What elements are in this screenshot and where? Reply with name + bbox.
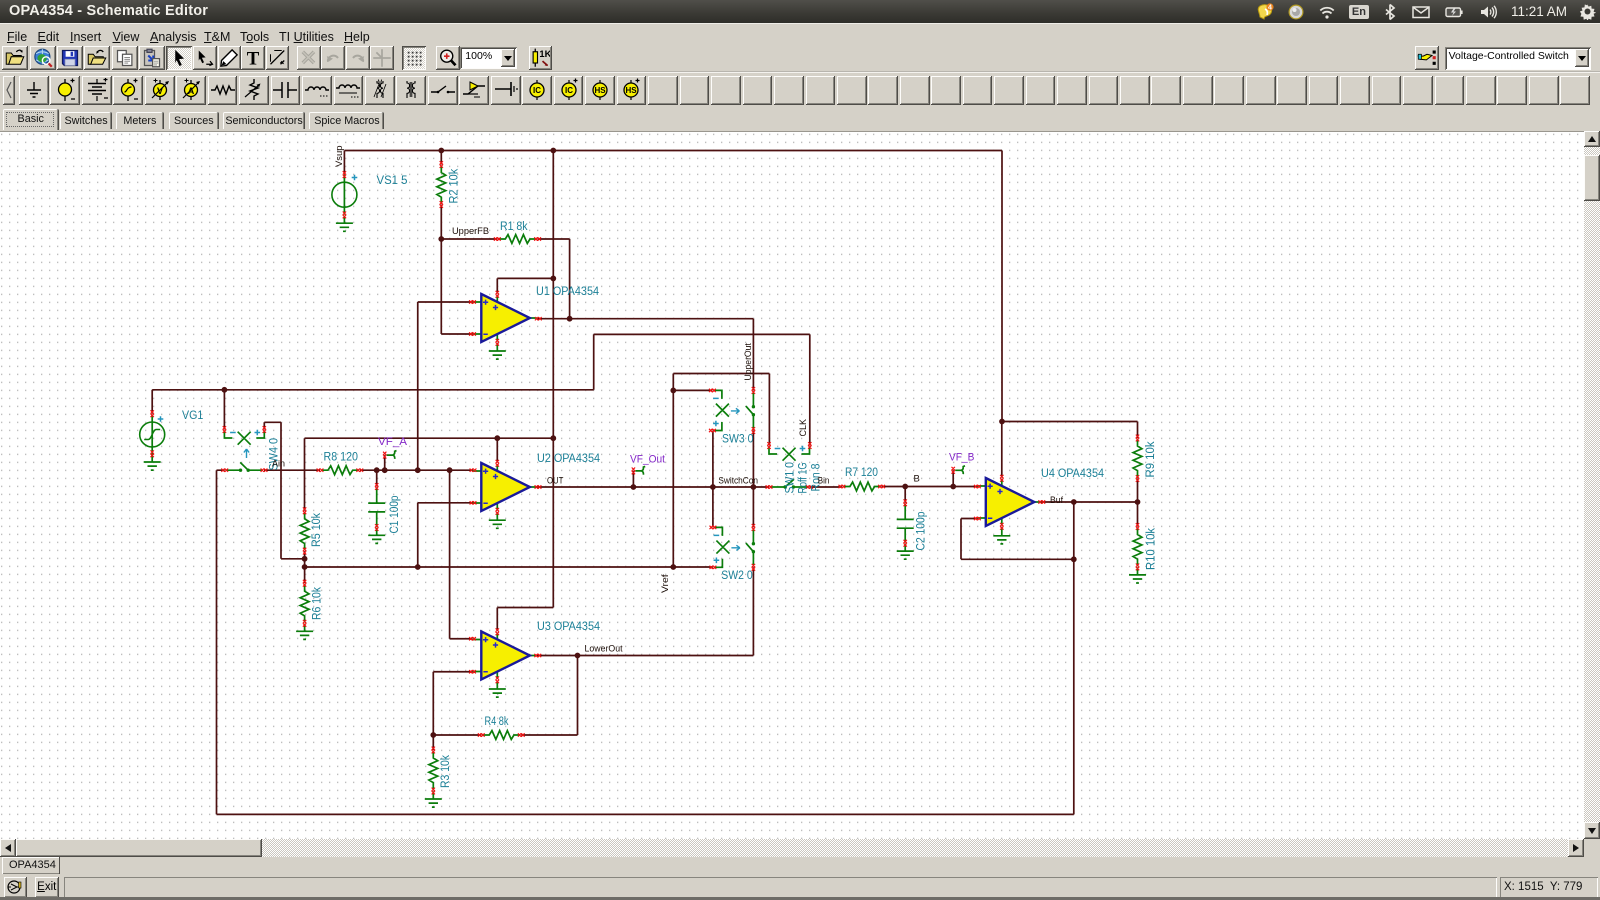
svg-text:R1 8k: R1 8k <box>500 221 528 233</box>
svg-text:R6 10k: R6 10k <box>312 587 324 620</box>
svg-text:Buf: Buf <box>1050 495 1063 506</box>
svg-text:VF_Out: VF_Out <box>630 454 665 466</box>
svg-text:U1 OPA4354: U1 OPA4354 <box>536 286 600 298</box>
svg-text:HS: HS <box>626 86 638 95</box>
svg-text:OUT: OUT <box>547 475 564 486</box>
svg-text:Bin: Bin <box>818 476 830 487</box>
svg-text:R5 10k: R5 10k <box>311 513 323 547</box>
svg-text:U4 OPA4354: U4 OPA4354 <box>1041 468 1105 480</box>
svg-text:R10 10k: R10 10k <box>1146 528 1158 570</box>
svg-text:VG1: VG1 <box>182 410 203 422</box>
svg-text:HS: HS <box>594 86 606 95</box>
svg-text:C1 100p: C1 100p <box>389 496 401 534</box>
svg-text:VF_A: VF_A <box>378 436 408 448</box>
svg-text:R9 10k: R9 10k <box>1145 441 1157 477</box>
svg-text:SW3 0: SW3 0 <box>722 434 753 446</box>
svg-text:U2 OPA4354: U2 OPA4354 <box>537 453 601 465</box>
svg-text:B: B <box>914 474 920 485</box>
svg-text:Roff 1G: Roff 1G <box>798 462 810 493</box>
svg-text:R4 8k: R4 8k <box>485 716 509 728</box>
svg-text:1K: 1K <box>540 49 551 59</box>
svg-text:R7 120: R7 120 <box>845 467 878 479</box>
svg-text:C2 100p: C2 100p <box>916 512 928 551</box>
svg-text:T: T <box>247 48 260 68</box>
svg-text:CLK: CLK <box>798 418 809 436</box>
svg-text:IC: IC <box>533 86 541 95</box>
svg-text:UpperFB: UpperFB <box>452 226 489 237</box>
svg-text:Vsup: Vsup <box>334 146 345 168</box>
svg-text:R2 10k: R2 10k <box>449 169 461 204</box>
svg-text:SW1 0: SW1 0 <box>785 462 797 494</box>
svg-text:R8 120: R8 120 <box>324 452 359 464</box>
svg-text:Vref: Vref <box>660 574 671 593</box>
svg-text:SwitchCon: SwitchCon <box>718 476 758 487</box>
svg-text:VS1 5: VS1 5 <box>377 175 408 187</box>
svg-text:LowerOut: LowerOut <box>585 644 623 655</box>
svg-text:U3 OPA4354: U3 OPA4354 <box>537 621 601 633</box>
svg-text:IC: IC <box>565 86 573 95</box>
svg-text:R3 10k: R3 10k <box>440 755 452 788</box>
svg-text:4: 4 <box>1268 4 1272 11</box>
svg-text:VF_B: VF_B <box>949 452 974 464</box>
svg-text:UpperOut: UpperOut <box>743 343 754 381</box>
svg-text:Ain: Ain <box>272 458 285 469</box>
svg-text:SW2 0: SW2 0 <box>721 570 752 582</box>
